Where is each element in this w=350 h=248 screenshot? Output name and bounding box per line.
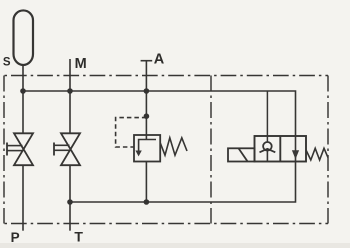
wire: top bus <box>23 91 296 136</box>
pilot line (dashed) <box>116 118 147 147</box>
check valve seat <box>260 149 276 153</box>
svg-text:A: A <box>154 52 165 68</box>
wire: M/T vertical upper <box>69 59 71 133</box>
enclosure frame right (dash-dot) <box>327 76 329 224</box>
relief valve internal path <box>139 140 156 152</box>
solenoid actuator <box>228 148 255 161</box>
junction S line / top bus <box>20 88 26 94</box>
relief valve internal arrowhead <box>135 151 141 157</box>
enclosure frame top (dash-dot) <box>4 75 328 77</box>
accumulator S <box>14 10 34 65</box>
svg-text:M: M <box>75 56 87 72</box>
port A tick <box>141 60 153 62</box>
junction pilot tap on A line <box>144 113 150 119</box>
junction relief valve / bottom bus <box>144 199 150 205</box>
valve position divider <box>279 136 281 162</box>
wire: M/T vertical lower <box>69 165 71 231</box>
junction T line / bottom bus <box>67 199 73 205</box>
valve return spring <box>306 148 328 160</box>
relief valve body <box>134 135 160 162</box>
svg-text:P: P <box>11 230 20 245</box>
svg-text:S: S <box>3 57 11 69</box>
wire: A vertical <box>145 61 147 140</box>
junction A line / top bus <box>144 88 150 94</box>
shut-off valve V2 <box>54 133 80 165</box>
flow path in right square <box>295 136 297 162</box>
wire: S/P vertical lower <box>22 165 24 231</box>
shut-off valve V1 <box>7 133 33 165</box>
check valve lower stub <box>266 149 268 162</box>
flow arrowhead in right square <box>292 150 299 159</box>
partition line (dash-dot) <box>210 76 212 224</box>
check valve ball <box>263 142 272 151</box>
junction M line / top bus <box>67 88 73 94</box>
directional valve body (two positions) <box>255 136 307 162</box>
wire: relief valve bottom <box>145 162 147 203</box>
enclosure frame bottom (dash-dot) <box>4 223 328 225</box>
enclosure frame left (dash-dot) <box>3 76 5 224</box>
wire: S/P vertical upper <box>22 64 24 133</box>
check valve stub <box>266 91 268 142</box>
relief valve spring <box>160 138 187 155</box>
wire: bottom bus <box>70 162 296 203</box>
svg-text:T: T <box>74 228 83 244</box>
